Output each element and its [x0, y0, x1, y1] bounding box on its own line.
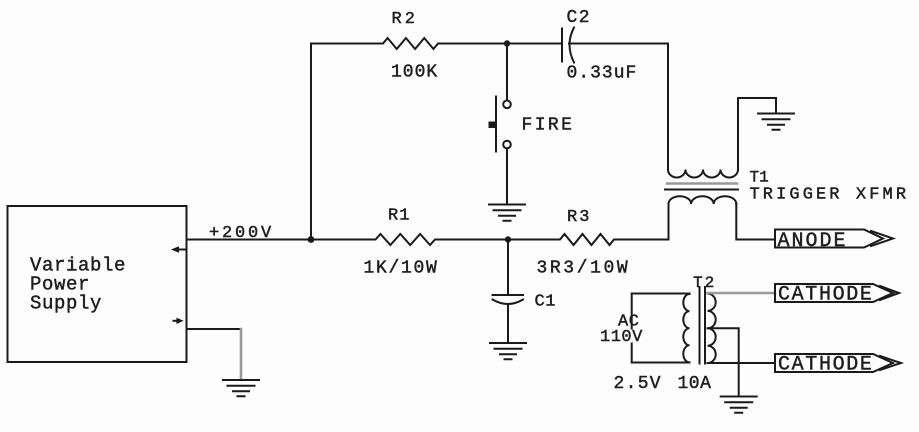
- svg-text:100K: 100K: [391, 63, 438, 83]
- svg-text:R3: R3: [567, 208, 591, 227]
- svg-text:R1: R1: [388, 207, 410, 226]
- svg-text:R2: R2: [392, 10, 418, 29]
- svg-text:C2: C2: [567, 8, 592, 28]
- svg-text:110V: 110V: [600, 328, 643, 347]
- svg-text:0.33uF: 0.33uF: [567, 64, 638, 84]
- svg-text:TRIGGER XFMR: TRIGGER XFMR: [750, 186, 910, 205]
- svg-text:1K/10W: 1K/10W: [364, 259, 439, 279]
- svg-text:T2: T2: [693, 274, 716, 292]
- svg-text:2.5V: 2.5V: [614, 374, 662, 394]
- svg-text:ANODE: ANODE: [778, 230, 848, 253]
- svg-text:10A: 10A: [678, 374, 712, 394]
- svg-text:CATHODE: CATHODE: [778, 284, 874, 307]
- svg-text:Supply: Supply: [30, 293, 102, 315]
- svg-text:3R3/10W: 3R3/10W: [537, 259, 631, 279]
- svg-text:CATHODE: CATHODE: [778, 354, 874, 377]
- svg-text:T1: T1: [750, 169, 769, 187]
- svg-text:FIRE: FIRE: [522, 116, 575, 136]
- svg-text:C1: C1: [535, 293, 556, 312]
